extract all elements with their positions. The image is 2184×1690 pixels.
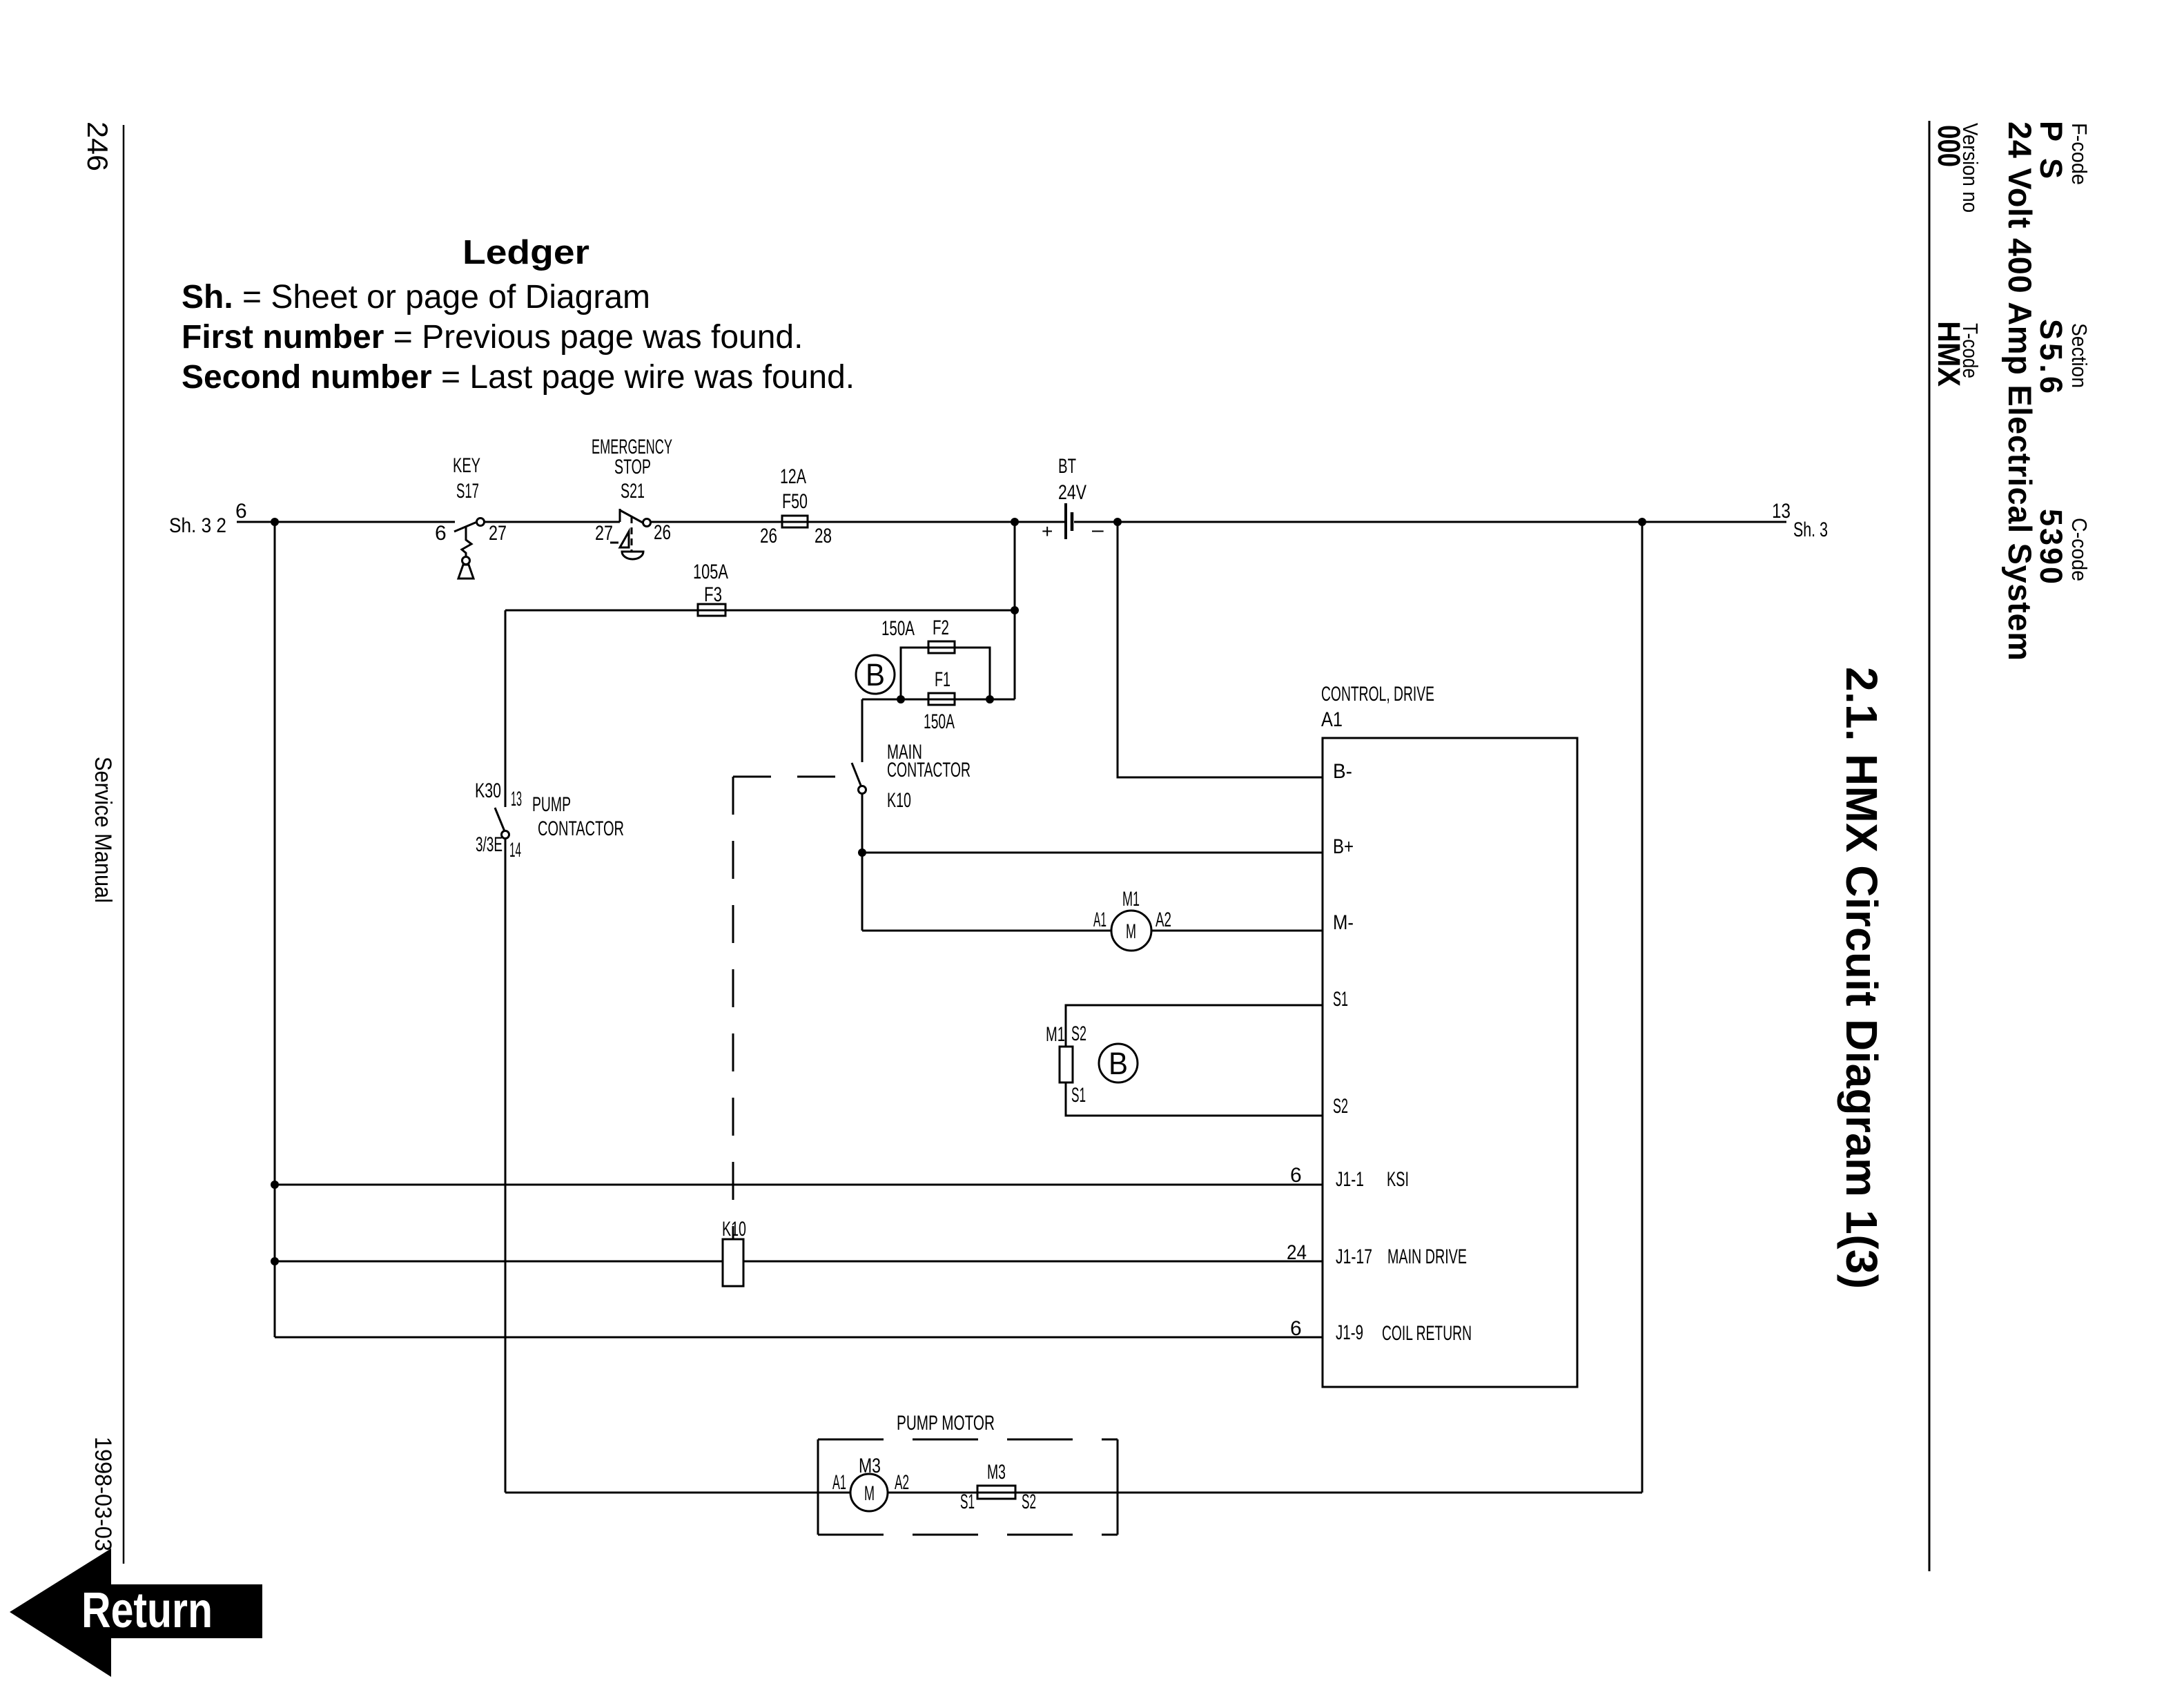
- battery minus drop to B-: [1118, 522, 1323, 777]
- junction dot F3 to battery drop: [1011, 606, 1019, 614]
- pump motor M3 circle: [850, 1474, 888, 1511]
- svg-text:Second number = Last page wire: Second number = Last page wire was found…: [182, 359, 855, 396]
- svg-text:2.1. HMX Circuit Diagram 1(3): 2.1. HMX Circuit Diagram 1(3): [1837, 667, 1886, 1289]
- svg-text:A2: A2: [895, 1471, 909, 1494]
- svg-text:000: 000: [1931, 125, 1967, 167]
- S17 key actuator: [458, 527, 474, 579]
- S21 contact circle: [643, 519, 651, 527]
- svg-text:6: 6: [435, 522, 447, 545]
- svg-text:MAIN DRIVE: MAIN DRIVE: [1387, 1245, 1467, 1268]
- fuse F3 body: [698, 604, 725, 616]
- svg-text:S2: S2: [1022, 1490, 1036, 1513]
- svg-text:–: –: [1092, 518, 1104, 541]
- K10 coil: [723, 1239, 743, 1286]
- battery plus drop: [1014, 522, 1016, 699]
- shunt resistor M1: [1060, 1047, 1073, 1082]
- svg-text:M3: M3: [987, 1461, 1006, 1484]
- motor M1 circle: [1111, 911, 1151, 951]
- svg-text:26: 26: [760, 525, 777, 547]
- junction dot box right: [986, 695, 994, 703]
- svg-text:150A: 150A: [881, 617, 915, 640]
- wire battery to right end: [1074, 521, 1786, 523]
- junction dot main drive: [271, 1257, 279, 1265]
- junction dot at left drop: [271, 518, 279, 526]
- svg-text:K10: K10: [722, 1218, 746, 1241]
- svg-text:13: 13: [1772, 500, 1791, 523]
- svg-text:M: M: [1126, 920, 1136, 943]
- svg-text:K30: K30: [475, 779, 501, 802]
- svg-text:STOP: STOP: [614, 456, 651, 478]
- wire contactor to B+ node: [861, 794, 864, 931]
- F2 fuse body: [928, 641, 955, 653]
- pump motor dashed box: [818, 1439, 1118, 1535]
- svg-text:J1-17: J1-17: [1336, 1245, 1372, 1268]
- svg-text:24: 24: [1287, 1241, 1307, 1264]
- svg-text:A1: A1: [832, 1471, 846, 1494]
- dashed mechanical link K10: [733, 777, 850, 1239]
- svg-text:Ledger: Ledger: [462, 234, 589, 271]
- wire S17 to S21: [485, 521, 620, 523]
- svg-text:24V: 24V: [1058, 481, 1086, 504]
- svg-text:F3: F3: [704, 583, 722, 606]
- svg-text:J1-1: J1-1: [1336, 1168, 1364, 1191]
- B circle battery sense: [856, 655, 895, 694]
- K30 contact circle: [502, 831, 509, 839]
- svg-text:6: 6: [1290, 1164, 1302, 1187]
- main contactor K10 drop: [852, 699, 1323, 951]
- svg-text:S1: S1: [960, 1490, 975, 1513]
- svg-text:BT: BT: [1058, 455, 1076, 478]
- pump branch: [495, 522, 1642, 1493]
- M- wire right: [1151, 930, 1323, 932]
- S1 wire: [1066, 1005, 1323, 1047]
- svg-text:14: 14: [509, 839, 521, 862]
- COIL RETURN wire: [275, 1337, 1323, 1339]
- KSI wire: [275, 1184, 1323, 1186]
- svg-text:F-code: F-code: [2067, 123, 2092, 185]
- pump shunt M3: [977, 1486, 1015, 1499]
- key switch S17 contact circle: [477, 518, 485, 526]
- S21 mushroom actuator: [610, 516, 643, 559]
- svg-text:M-: M-: [1333, 911, 1354, 934]
- pump drop lower: [505, 839, 507, 1493]
- svg-text:J1-9: J1-9: [1336, 1321, 1363, 1344]
- fuse box F1 F2: [862, 641, 1015, 705]
- svg-text:CONTROL, DRIVE: CONTROL, DRIVE: [1321, 683, 1434, 706]
- svg-text:1998-03-03: 1998-03-03: [90, 1437, 116, 1551]
- svg-text:M1: M1: [1122, 888, 1140, 911]
- svg-text:PUMP MOTOR: PUMP MOTOR: [897, 1412, 995, 1435]
- junction dot KSI: [271, 1181, 279, 1189]
- svg-text:28: 28: [815, 525, 832, 547]
- svg-text:A1: A1: [1093, 909, 1106, 931]
- pump drop upper: [505, 610, 507, 807]
- svg-text:Return: Return: [81, 1583, 213, 1638]
- S2 wire: [1066, 1082, 1323, 1116]
- controller box A1: [1323, 738, 1577, 1387]
- junction dot B+: [858, 848, 866, 857]
- main contactor arm: [852, 763, 861, 787]
- svg-text:F50: F50: [782, 490, 808, 513]
- B+ wire: [862, 852, 1323, 854]
- junction dot right drop: [1638, 518, 1646, 526]
- svg-text:S1: S1: [1333, 988, 1348, 1011]
- svg-text:M3: M3: [859, 1455, 881, 1477]
- svg-text:B+: B+: [1333, 835, 1354, 858]
- junction dot battery plus: [1011, 518, 1019, 526]
- svg-text:M1: M1: [1046, 1023, 1065, 1046]
- svg-text:12A: 12A: [780, 465, 806, 488]
- box outline: [901, 648, 990, 699]
- svg-text:B: B: [866, 657, 885, 692]
- M- wire left: [862, 930, 1111, 932]
- svg-text:A1: A1: [1321, 708, 1343, 731]
- svg-text:Sh. 3 2: Sh. 3 2: [169, 514, 226, 537]
- junction dot battery minus: [1113, 518, 1122, 526]
- K30 pump contactor arm: [495, 808, 505, 831]
- Return arrow: [10, 1548, 262, 1677]
- svg-text:S21: S21: [621, 480, 645, 503]
- svg-text:3/3E: 3/3E: [476, 833, 503, 856]
- sense loop S1 S2: [1060, 1005, 1323, 1116]
- svg-text:S2: S2: [1071, 1022, 1086, 1045]
- svg-text:26: 26: [654, 521, 671, 544]
- svg-text:M: M: [864, 1482, 875, 1505]
- svg-text:+: +: [1042, 521, 1053, 542]
- svg-text:B-: B-: [1333, 760, 1352, 783]
- svg-text:Sh. 3: Sh. 3: [1793, 518, 1828, 541]
- svg-text:S1: S1: [1071, 1084, 1086, 1107]
- right riser: [1641, 522, 1644, 1493]
- svg-text:F1: F1: [935, 668, 950, 691]
- svg-text:27: 27: [489, 522, 507, 545]
- right separator rule: [1929, 121, 1931, 1571]
- bottom wire through F1: [862, 699, 1015, 701]
- left margin rule: [123, 125, 125, 1564]
- svg-text:Service Manual: Service Manual: [90, 757, 116, 903]
- svg-text:KSI: KSI: [1387, 1168, 1409, 1191]
- svg-text:K10: K10: [887, 789, 911, 812]
- S21 fixed contact tick: [619, 509, 621, 522]
- fuse F50 body: [782, 521, 808, 523]
- battery BT long plate: [1064, 503, 1067, 539]
- junction dot box left: [897, 695, 905, 703]
- emergency stop S21 arm: [620, 510, 643, 523]
- svg-text:13: 13: [511, 788, 522, 810]
- svg-text:S17: S17: [456, 480, 479, 503]
- svg-text:Sh. = Sheet or page of Diagram: Sh. = Sheet or page of Diagram: [182, 279, 650, 315]
- svg-text:KEY: KEY: [453, 454, 480, 477]
- svg-text:27: 27: [595, 522, 613, 545]
- svg-text:F2: F2: [933, 616, 949, 639]
- svg-text:105A: 105A: [693, 561, 728, 583]
- svg-text:HMX: HMX: [1931, 321, 1967, 387]
- svg-text:Section: Section: [2067, 323, 2092, 388]
- svg-text:S2: S2: [1333, 1095, 1348, 1118]
- svg-text:COIL RETURN: COIL RETURN: [1382, 1322, 1472, 1345]
- svg-text:150A: 150A: [924, 710, 955, 733]
- main contactor circle: [859, 786, 866, 794]
- svg-text:24 Volt 400 Amp Electrical Sys: 24 Volt 400 Amp Electrical System: [2002, 122, 2038, 661]
- battery BT short plate: [1071, 512, 1074, 531]
- wire S21 to F50: [651, 521, 782, 523]
- svg-text:246: 246: [81, 122, 114, 171]
- top rail wire left segment: [237, 521, 455, 523]
- svg-text:PUMP: PUMP: [532, 793, 571, 816]
- F1 fuse body: [928, 693, 955, 705]
- svg-text:6: 6: [1290, 1317, 1302, 1340]
- MAIN DRIVE wire: [275, 1239, 1323, 1286]
- wire F50 to battery: [808, 521, 1065, 523]
- svg-text:CONTACTOR: CONTACTOR: [538, 817, 624, 840]
- key switch S17 arm: [454, 522, 477, 532]
- svg-text:CONTACTOR: CONTACTOR: [887, 759, 971, 781]
- pump bottom wire: [505, 1492, 1642, 1494]
- B circle motor sense: [1099, 1044, 1138, 1082]
- left drop vertical wire: [271, 522, 279, 1337]
- F3 branch wire: [505, 522, 1019, 699]
- svg-text:C-code: C-code: [2067, 518, 2092, 581]
- svg-text:B: B: [1109, 1046, 1128, 1081]
- svg-text:A2: A2: [1156, 909, 1171, 931]
- svg-text:First number = Previous page w: First number = Previous page was found.: [182, 319, 803, 356]
- svg-text:6: 6: [235, 500, 247, 523]
